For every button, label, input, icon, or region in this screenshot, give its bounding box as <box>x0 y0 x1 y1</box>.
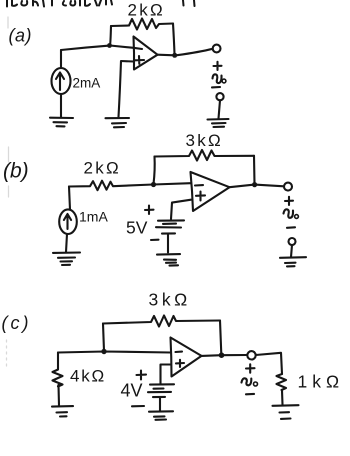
arrow of current source I2 <box>64 214 71 229</box>
label minus (output b) <box>287 226 295 229</box>
wire: noninverting input (c) to battery <box>161 365 172 384</box>
value label 4kΩ <box>70 367 106 386</box>
value label 1mA <box>79 209 108 225</box>
label vo (c) <box>242 378 258 386</box>
wire: op-amp output (c) <box>202 354 248 357</box>
wire: battery to ground (c) <box>159 398 161 412</box>
node: inverting input node (c) <box>101 349 106 354</box>
wire: output node to terminal (a) <box>177 49 213 55</box>
label (c) <box>2 313 32 333</box>
wire: feedback right vertical to output node (a) <box>173 24 175 55</box>
op-amp U1 triangle (a) <box>134 37 158 70</box>
resistor R5 3kΩ feedback (c) <box>103 316 220 327</box>
label vo (a) <box>213 74 226 83</box>
arrow of current source I1 <box>56 73 64 91</box>
faint notebook margin marks <box>7 17 9 370</box>
terminal: output (c) <box>247 351 255 359</box>
node A (inverting input node a) <box>107 43 112 48</box>
label minus (output c) <box>246 393 254 395</box>
wire: noninverting input (b) to battery <box>171 200 191 219</box>
label + (output c) <box>246 364 255 372</box>
ground (battery b) <box>157 254 180 266</box>
battery V2 4V (c) <box>148 384 174 397</box>
wire: current source I2 to ground <box>66 234 67 252</box>
label (a) <box>9 26 33 46</box>
wire: op-amp output to node (a) <box>158 54 175 57</box>
node: output node (a) <box>172 53 177 58</box>
ground (resistor 4k c) <box>52 406 73 416</box>
svg-text:1mA: 1mA <box>79 209 108 225</box>
wire: lower terminal to ground (a) <box>219 100 221 118</box>
svg-text:(b): (b) <box>3 160 29 183</box>
current source I1 2mA <box>52 68 71 94</box>
wire: noninverting input (a) to ground <box>119 61 134 117</box>
ground (current source b) <box>53 253 80 266</box>
label + (battery c) <box>137 371 147 380</box>
svg-text:(a): (a) <box>9 26 33 46</box>
terminal: output + (b) <box>284 183 292 191</box>
ground (load c) <box>273 405 299 419</box>
value label 2kΩ (input resistor b) <box>84 159 121 178</box>
op-amp U3 triangle (c) <box>171 338 202 377</box>
wire: feedback top, node A to resistor <box>110 26 111 45</box>
wire: feedback right vertical (b) <box>253 156 256 184</box>
wire: main input wire (c) <box>58 352 171 353</box>
terminal: output - (a) <box>216 93 223 100</box>
svg-text:5V: 5V <box>126 218 148 238</box>
resistor R2 2kΩ (b) <box>69 181 153 191</box>
svg-text:(c): (c) <box>2 313 32 333</box>
cut-off handwritten title text at top edge <box>7 0 195 7</box>
value label 5V <box>126 218 148 238</box>
wire: op-amp output (b) <box>230 185 285 188</box>
value label 1kΩ <box>298 372 345 392</box>
wire: lower terminal to ground (b) <box>291 245 292 257</box>
wire: feedback right vertical (c) <box>220 321 221 355</box>
svg-text:2mA: 2mA <box>73 76 101 91</box>
op-amp U2 triangle (b) <box>191 172 230 211</box>
svg-text:2kΩ: 2kΩ <box>84 159 121 178</box>
label (b) <box>3 160 29 183</box>
wire: current source to node A <box>61 46 108 50</box>
resistor R1 2kΩ feedback (a) <box>111 19 173 30</box>
wire: terminal to load (c) <box>256 353 282 374</box>
svg-text:2kΩ: 2kΩ <box>128 1 165 20</box>
node: inverting input node (b) <box>151 182 156 187</box>
value label 2mA <box>73 76 101 91</box>
wire: current source top (b) <box>69 187 70 210</box>
node: output node (c) <box>219 352 225 358</box>
value label 3kΩ (feedback c) <box>149 290 191 310</box>
ground (output a) <box>208 119 229 127</box>
wire: top of current source I1 <box>60 50 62 68</box>
plus mark U2 <box>196 192 205 201</box>
minus mark U2 <box>195 184 203 186</box>
wire: inverting input (b) <box>154 183 191 184</box>
wire: current source I1 to ground <box>60 94 62 117</box>
ground (noninverting input a) <box>106 118 130 127</box>
svg-text:1kΩ: 1kΩ <box>298 372 345 392</box>
svg-text:3kΩ: 3kΩ <box>186 131 223 150</box>
battery V1 5V (b) <box>156 220 184 233</box>
wire: inverting input (a) <box>110 46 142 50</box>
value label 4V <box>121 381 143 401</box>
node: output node (b) <box>252 182 257 187</box>
plus mark U1 <box>134 56 144 64</box>
plus mark U3 <box>176 360 184 367</box>
label + (output a) <box>214 62 222 70</box>
label + (output b) <box>285 197 293 205</box>
terminal: output - (b) <box>289 238 296 245</box>
label + (battery b) <box>145 206 154 215</box>
value label 3kΩ (feedback resistor b) <box>186 131 223 150</box>
label minus (output a) <box>212 86 220 89</box>
ground (below current source a) <box>50 118 73 127</box>
resistor R6 1kΩ load (c) <box>277 374 287 405</box>
label minus (battery c) <box>132 405 144 407</box>
resistor R3 3kΩ feedback (b) <box>155 150 255 161</box>
ground (battery c) <box>149 411 173 420</box>
wire: feedback left vertical (b) <box>154 157 155 185</box>
current source I2 1mA <box>59 209 77 234</box>
svg-text:4kΩ: 4kΩ <box>70 367 106 386</box>
minus mark U3 <box>176 351 183 353</box>
wire: battery to ground (b) <box>167 234 169 253</box>
svg-text:4V: 4V <box>121 381 143 401</box>
label vo (b) <box>284 209 299 218</box>
wire: feedback left vertical (c) <box>103 324 104 352</box>
label minus (battery b) <box>151 239 159 241</box>
ground (output b) <box>280 257 306 266</box>
svg-text:3kΩ: 3kΩ <box>149 290 191 310</box>
terminal: output + (a) <box>213 45 221 53</box>
value label 2kΩ (feedback resistor a) <box>128 1 165 20</box>
resistor R4 4kΩ (c) <box>53 353 63 406</box>
